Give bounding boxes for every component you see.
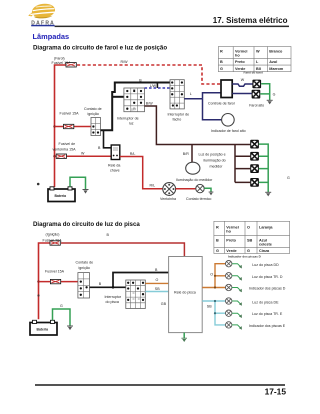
lamp pisca TR D	[226, 273, 232, 279]
svg-text:Iluminação do medidor: Iluminação do medidor	[176, 178, 213, 182]
svg-text:R/W: R/W	[121, 60, 129, 64]
fuse ventoinha 15A	[56, 154, 66, 158]
svg-text:G: G	[220, 67, 223, 71]
wire navy down to indicator	[203, 99, 222, 120]
wire navy controle to lamp2	[232, 93, 252, 95]
svg-text:Interruptor: Interruptor	[105, 295, 122, 299]
battery diagram1	[48, 187, 75, 202]
lamp farol alto 1	[252, 80, 261, 89]
svg-text:G: G	[216, 249, 219, 253]
svg-text:B: B	[216, 238, 219, 242]
svg-text:W: W	[81, 152, 85, 156]
wire cyan rele to right lamps	[202, 301, 225, 325]
fuse F15A d2	[50, 279, 60, 283]
svg-text:W: W	[241, 78, 245, 82]
lamp pisca DE	[226, 298, 232, 304]
wire black branch to luz switch	[112, 96, 124, 98]
svg-text:O: O	[210, 273, 213, 277]
wire cyan pisca switch to rele	[145, 291, 168, 293]
svg-text:ignição: ignição	[79, 266, 90, 270]
svg-text:Preto: Preto	[235, 60, 245, 64]
wire R/L red relay to fan	[120, 157, 163, 189]
svg-text:luz: luz	[129, 122, 134, 126]
svg-text:Diagrama do circuito de luz do: Diagrama do circuito de luz do pisca	[33, 221, 140, 228]
svg-text:Cinza: Cinza	[259, 249, 270, 253]
wire B/R maroon bus to position lamps	[235, 145, 250, 183]
svg-text:B: B	[155, 268, 158, 272]
TABLE2 wire colour legend diagram 2	[214, 221, 290, 253]
wire orange pisca switch to rele	[145, 282, 168, 284]
grounds orange lamps	[232, 264, 240, 291]
junction rail-fuse15A d2	[37, 280, 39, 282]
svg-text:B/W: B/W	[146, 101, 153, 105]
grounds cyan lamps	[232, 301, 240, 328]
svg-text:Luz do pisca DE: Luz do pisca DE	[252, 301, 279, 305]
svg-text:celeste: celeste	[259, 243, 272, 247]
svg-text:ignição: ignição	[88, 112, 99, 116]
svg-text:Relé do pisca: Relé do pisca	[174, 290, 196, 294]
wire green battery2 to ground	[53, 309, 71, 326]
svg-text:Branco: Branco	[269, 49, 283, 53]
wire red fan to thermal	[176, 188, 196, 190]
logo blue bar	[31, 25, 54, 27]
svg-text:W: W	[256, 49, 260, 53]
svg-text:Contato de: Contato de	[84, 107, 102, 111]
connector interruptor de facho	[170, 80, 184, 109]
wire B/W maroon from luz switch	[145, 106, 236, 145]
junction rail-ventoinha	[53, 155, 55, 157]
lamp indicador piscas E	[226, 322, 232, 328]
wire black stub to dashed	[156, 83, 158, 89]
svg-text:G: G	[247, 249, 250, 253]
wire black ignition to pisca switch and rele	[90, 273, 169, 288]
wire L/W blue dashed	[145, 87, 171, 89]
svg-text:chave: chave	[110, 169, 120, 173]
svg-text:Luz do pisca TR. D: Luz do pisca TR. D	[252, 275, 283, 279]
svg-text:O: O	[156, 278, 159, 282]
lamp farol alto 2	[252, 90, 261, 99]
battery diagram2	[30, 320, 57, 335]
svg-text:17-15: 17-15	[265, 386, 287, 396]
svg-text:do pisca: do pisca	[106, 300, 119, 304]
ground position lamps	[265, 192, 271, 196]
wire drop to medidor lamp	[191, 145, 193, 163]
svg-text:Luz do pisca TR. E: Luz do pisca TR. E	[252, 312, 283, 316]
wire W navy controle to lamp1	[232, 84, 252, 86]
svg-text:Indicador dos piscas D: Indicador dos piscas D	[249, 286, 286, 290]
svg-text:SB: SB	[155, 287, 160, 291]
svg-text:R/L: R/L	[130, 152, 136, 156]
svg-text:L: L	[256, 60, 259, 64]
ground battery2	[67, 326, 73, 330]
wire L navy from facho	[184, 98, 202, 100]
junction rail-fuse15A	[53, 125, 55, 127]
svg-text:Luz do pisca DD: Luz do pisca DD	[252, 263, 279, 267]
wire navy junction to controle	[203, 93, 222, 99]
logo Dafra swoosh	[28, 2, 56, 19]
svg-text:Marrom: Marrom	[269, 67, 284, 71]
lamp posicao 1	[250, 140, 259, 149]
node mark d2	[37, 294, 39, 296]
ground thermal	[209, 192, 214, 195]
svg-text:ho: ho	[235, 54, 240, 58]
svg-text:facho: facho	[173, 118, 182, 122]
ground rele do pisca	[181, 338, 187, 342]
wire red top to rele do pisca	[61, 243, 184, 257]
indicator farol alto circle	[222, 114, 235, 127]
TABLE1 wire colour legend diagram 1	[218, 47, 291, 72]
svg-text:Laranja: Laranja	[259, 225, 273, 229]
svg-text:Fusível 15A: Fusível 15A	[60, 112, 80, 116]
wire red to ignition	[55, 126, 92, 128]
svg-text:R/L: R/L	[150, 183, 156, 187]
wire green rele ground	[183, 333, 185, 339]
svg-text:Farol alto: Farol alto	[249, 104, 264, 108]
svg-text:B/R: B/R	[183, 152, 189, 156]
fuse F20A	[50, 241, 60, 245]
svg-text:L/W: L/W	[150, 84, 157, 88]
wire red to relay	[55, 155, 112, 157]
wire red to ignition d2	[39, 281, 78, 283]
fan ventoinha symbol	[163, 183, 176, 196]
svg-text:B: B	[107, 233, 110, 237]
svg-text:Bateria: Bateria	[55, 194, 67, 198]
junction black d2	[112, 286, 115, 289]
svg-text:medidor: medidor	[210, 165, 224, 169]
wire green thermal to ground	[204, 188, 211, 192]
svg-text:O: O	[247, 225, 250, 229]
lamp posicao 4	[250, 178, 259, 187]
svg-text:G: G	[60, 304, 63, 308]
svg-text:17. Sistema elétrico: 17. Sistema elétrico	[213, 16, 288, 25]
svg-text:SB: SB	[247, 238, 253, 242]
lamp posicao 2	[250, 152, 259, 161]
fuse F15A	[64, 124, 74, 128]
svg-text:B: B	[98, 146, 101, 150]
wire black branch to relay	[104, 130, 112, 148]
svg-text:Controle de farol: Controle de farol	[208, 101, 235, 105]
connector contato de ignicao d2	[78, 273, 90, 298]
svg-text:iluminação do: iluminação do	[204, 159, 226, 163]
svg-text:R: R	[220, 49, 223, 53]
lamp pisca DD	[226, 261, 232, 267]
node W mark	[37, 183, 40, 186]
svg-text:G: G	[273, 92, 276, 96]
wire green farol lamps to ground	[260, 84, 269, 101]
rele do pisca box	[169, 257, 203, 333]
wire red main rail d2	[39, 243, 51, 319]
svg-text:Ventoinha: Ventoinha	[160, 197, 176, 201]
ground battery1	[83, 190, 89, 194]
controle de farol box	[221, 80, 232, 98]
svg-text:(Ignição): (Ignição)	[46, 232, 60, 236]
svg-text:Relé da: Relé da	[108, 163, 120, 167]
svg-text:Bateria: Bateria	[37, 327, 49, 331]
svg-text:ventoinha 15A: ventoinha 15A	[53, 147, 77, 151]
svg-text:Interruptor de: Interruptor de	[168, 112, 190, 116]
svg-text:B: B	[99, 282, 102, 286]
svg-text:Lâmpadas: Lâmpadas	[33, 32, 70, 41]
svg-text:Fusível de: Fusível de	[59, 142, 76, 146]
svg-text:Verde: Verde	[226, 249, 236, 253]
svg-text:SB: SB	[207, 304, 212, 308]
fuse F10A	[66, 63, 76, 67]
svg-text:Farol do farol: Farol do farol	[244, 71, 263, 75]
svg-text:OFF: OFF	[131, 108, 137, 112]
svg-text:B: B	[220, 60, 223, 64]
svg-text:Fusível 15A: Fusível 15A	[45, 269, 65, 273]
svg-text:G: G	[287, 176, 290, 180]
wire black ignition to bus	[101, 83, 171, 131]
junction orange dots	[214, 275, 216, 277]
connector interruptor do pisca	[126, 280, 146, 309]
svg-text:Contato de: Contato de	[76, 261, 94, 265]
lamp indicador piscas D	[226, 284, 232, 290]
lamp pisca TR E	[226, 310, 232, 316]
svg-text:R: R	[216, 225, 219, 229]
svg-text:Contato térmico: Contato térmico	[186, 197, 211, 201]
svg-text:Diagrama do circuito de farol: Diagrama do circuito de farol e luz de p…	[33, 44, 167, 51]
wire orange rele to right lamps	[202, 264, 225, 288]
lamp posicao 3	[250, 164, 259, 173]
thermal contact symbol	[196, 184, 204, 192]
medidor illumination circle	[186, 162, 200, 174]
wire green position lamps	[259, 144, 268, 192]
ground farol	[267, 100, 273, 104]
svg-text:Indicador de farol alto: Indicador de farol alto	[211, 129, 246, 133]
wire green battery to ground	[70, 177, 86, 189]
svg-text:Interruptor de: Interruptor de	[117, 116, 139, 120]
svg-text:Azul: Azul	[269, 60, 277, 64]
junction cyan dots	[214, 300, 216, 302]
wire red main rail	[55, 65, 67, 187]
header rule	[55, 26, 289, 28]
connector contato de ignicao	[91, 118, 101, 136]
footer rule	[35, 384, 285, 386]
relay rele da chave box	[111, 145, 120, 160]
svg-text:Indicador dos piscas D: Indicador dos piscas D	[228, 254, 262, 258]
connector interruptor de luz	[124, 88, 145, 112]
svg-text:Preto: Preto	[226, 238, 236, 242]
svg-text:Indicador dos piscas E: Indicador dos piscas E	[249, 324, 286, 328]
svg-text:L: L	[190, 92, 192, 96]
wire R/W red dashed to controle	[77, 65, 221, 84]
svg-text:Luz de posição e: Luz de posição e	[199, 153, 226, 157]
svg-text:ho: ho	[226, 230, 231, 234]
svg-text:GB: GB	[161, 302, 167, 306]
